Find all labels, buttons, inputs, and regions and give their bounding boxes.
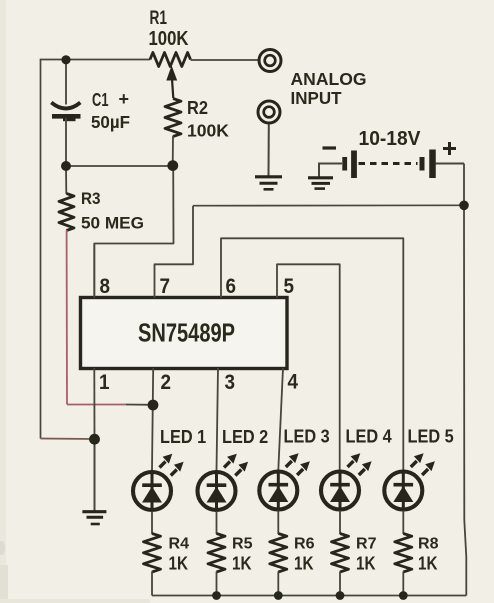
node R7 bottom junction — [336, 591, 345, 600]
wire pin 1 node to ground — [94, 439, 96, 511]
pin 3 stub to LED2 — [217, 368, 219, 470]
wire R1 to analog input — [191, 59, 258, 61]
wire top rail left — [40, 59, 150, 61]
svg-text:INPUT: INPUT — [291, 88, 342, 108]
svg-text:1K: 1K — [356, 553, 376, 574]
svg-text:R1: R1 — [150, 8, 168, 29]
wire battery minus to ground — [318, 163, 320, 178]
svg-text:1: 1 — [99, 371, 110, 394]
value 50µF — [91, 112, 130, 132]
svg-text:100K: 100K — [149, 28, 189, 50]
svg-text:+: + — [119, 89, 130, 109]
node R8 bottom junction — [399, 591, 408, 600]
svg-text:LED 4: LED 4 — [346, 426, 393, 447]
svg-text:R5: R5 — [232, 536, 253, 553]
svg-text:7: 7 — [160, 275, 171, 298]
value 1K (R4) — [169, 553, 189, 574]
label LED 5 — [408, 426, 454, 447]
svg-text:LED 1: LED 1 — [160, 426, 206, 447]
svg-text:R3: R3 — [81, 189, 101, 208]
pin 5 label — [284, 275, 295, 298]
value 100K (R2) — [187, 121, 229, 141]
LED 5 — [384, 453, 435, 511]
svg-text:1K: 1K — [232, 553, 252, 574]
op-amp U1 SN75489P — [81, 298, 288, 369]
svg-text:R7: R7 — [356, 536, 377, 553]
label R7 — [356, 536, 377, 553]
pin 4 label — [288, 371, 299, 394]
resistor R8 — [395, 511, 412, 596]
wire bottom rail — [152, 595, 466, 597]
ground (pin 1) — [82, 512, 106, 524]
ground (analog input) — [255, 177, 282, 190]
node R6 bottom junction — [274, 591, 283, 600]
svg-text:1K: 1K — [294, 553, 314, 574]
pin 3 label — [225, 371, 236, 394]
wire left rail to pin 1 node — [41, 438, 95, 441]
LED 4 — [321, 453, 372, 511]
pin 6 label — [226, 275, 237, 298]
label R3 — [81, 189, 101, 208]
svg-text:6: 6 — [226, 275, 237, 298]
resistor R3 — [59, 166, 74, 231]
wire left vertical rail — [40, 60, 42, 439]
svg-text:LED 2: LED 2 — [222, 426, 268, 447]
label LED 3 — [284, 426, 330, 447]
svg-text:1K: 1K — [418, 553, 438, 574]
svg-text:10-18V: 10-18V — [359, 128, 422, 150]
value 50 MEG — [81, 214, 144, 233]
svg-text:100K: 100K — [187, 121, 229, 141]
wire J2 to ground — [268, 125, 270, 177]
pin 6 stub and wire to LED5 column — [221, 238, 403, 470]
value 1K (R7) — [356, 553, 376, 574]
resistor R4 — [144, 511, 161, 596]
svg-text:R8: R8 — [418, 536, 439, 553]
node C1 top junction — [61, 55, 70, 64]
value 100K (R1) — [149, 28, 189, 50]
resistor R1 (potentiometer) — [150, 53, 191, 99]
pin 7 label — [160, 275, 171, 298]
pin 1 label — [99, 371, 110, 394]
pin 8 stub — [93, 244, 95, 299]
label R4 — [169, 536, 190, 553]
wire supply rail (pin 7 to battery +) — [193, 204, 464, 206]
node R3/pin2 junction — [148, 400, 159, 411]
pin 4 stub to LED3 — [278, 368, 283, 470]
svg-text:R4: R4 — [169, 536, 190, 553]
svg-text:LED 5: LED 5 — [408, 426, 454, 447]
svg-text:LED 3: LED 3 — [284, 426, 330, 447]
label 10-18V — [359, 128, 422, 150]
node R2 bottom junction — [167, 160, 178, 171]
pin 2 label — [161, 371, 172, 394]
pin 7 stub and wire to supply rail — [155, 206, 194, 298]
svg-text:R2: R2 — [187, 98, 208, 118]
label R5 — [232, 536, 253, 553]
svg-text:C1: C1 — [92, 90, 109, 110]
wire R3 bottom to pin 2 node (faded red) — [67, 230, 153, 405]
wire C1 bottom to R2 bottom — [66, 165, 173, 167]
battery B1 10-18V — [319, 150, 464, 179]
svg-text:50µF: 50µF — [91, 112, 130, 132]
value 1K (R5) — [232, 553, 252, 574]
node supply rail junction — [459, 201, 469, 211]
capacitor C1 — [51, 58, 80, 166]
label LED 1 — [160, 426, 206, 447]
svg-text:4: 4 — [288, 371, 299, 394]
ground (battery) — [308, 178, 333, 189]
resistor R6 — [270, 511, 287, 596]
LED 3 — [259, 453, 310, 511]
value 1K (R8) — [418, 553, 438, 574]
label R2 — [187, 98, 208, 118]
pin 1 stub to ground node — [93, 368, 95, 439]
svg-text:ANALOG: ANALOG — [291, 69, 367, 89]
svg-text:50 MEG: 50 MEG — [81, 214, 144, 233]
resistor R7 — [332, 511, 349, 596]
svg-text:R6: R6 — [294, 536, 315, 553]
wire R2 node down to pin 8 — [94, 166, 173, 298]
battery plus sign — [443, 142, 456, 155]
label R6 — [294, 536, 315, 553]
svg-text:5: 5 — [284, 275, 295, 298]
node R5 bottom junction — [212, 591, 221, 600]
pin 5 stub and wire to LED4 column — [277, 264, 340, 470]
node pin1/ground junction — [89, 434, 100, 445]
LED 1 — [133, 454, 184, 512]
svg-text:1K: 1K — [169, 553, 189, 574]
label R1 — [150, 8, 168, 29]
label ANALOG INPUT — [291, 69, 367, 108]
resistor R5 — [208, 511, 225, 596]
value 1K (R6) — [294, 553, 314, 574]
svg-text:8: 8 — [100, 275, 111, 298]
node C1 bottom junction — [61, 161, 71, 171]
terminal J1 analog input top — [259, 50, 281, 72]
svg-text:3: 3 — [225, 371, 236, 394]
LED 2 — [198, 454, 249, 512]
wire battery + down right side — [464, 164, 466, 596]
svg-text:2: 2 — [161, 371, 172, 394]
label C1 + — [92, 89, 129, 110]
label R8 — [418, 536, 439, 553]
pin 8 label — [100, 275, 111, 298]
resistor R2 — [165, 99, 181, 166]
label LED 2 — [222, 426, 268, 447]
terminal J2 analog input bottom — [258, 101, 280, 123]
svg-text:SN75489P: SN75489P — [138, 318, 235, 348]
label LED 4 — [346, 426, 393, 447]
battery minus sign — [323, 146, 337, 149]
pin 2 stub to LED1 — [152, 368, 153, 470]
